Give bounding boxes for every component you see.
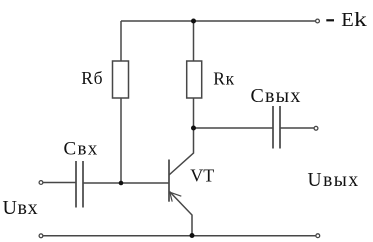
svg-text:E: E [341, 9, 354, 31]
svg-text:Свых: Свых [251, 85, 302, 107]
svg-text:Uвх: Uвх [3, 197, 39, 219]
svg-text:Uвых: Uвых [308, 170, 360, 191]
svg-text:Rк: Rк [213, 69, 234, 89]
svg-text:k: k [354, 8, 367, 31]
svg-text:Свх: Свх [64, 138, 99, 159]
svg-text:Rб: Rб [81, 68, 103, 88]
svg-text:VT: VT [190, 166, 214, 186]
